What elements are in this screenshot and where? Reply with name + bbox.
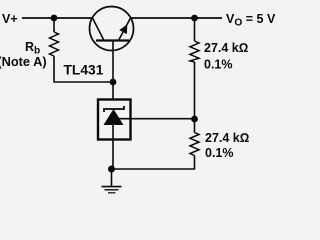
svg-text:V+: V+ [2,12,18,26]
wire: R1 bottom to divider node [194,62,196,119]
wire: TL431 reference pin to divider node [119,118,195,120]
transistor Q1 base bar [96,39,129,41]
wire: V+ rail to transistor collector [22,17,93,19]
junction dot: divider midpoint node [191,116,198,123]
wire: base lead down from bar to TL431 box [112,41,114,100]
svg-text:27.4 kΩ: 27.4 kΩ [204,41,248,55]
wire: anode lead to ground node [112,125,114,169]
junction dot: V+ / Rb node [51,15,58,22]
svg-text:TL431: TL431 [64,63,104,78]
TL431 cathode bar [104,106,124,112]
resistor Rb [50,32,59,56]
svg-text:(Note A): (Note A) [0,54,47,69]
ground [111,169,113,186]
transistor Q1 collector diagonal (left) [93,18,105,41]
transistor Q1 emitter arrow [119,24,127,34]
transistor Q1 emitter diagonal (right) [119,18,131,41]
transistor Q1 circle [90,7,134,51]
wire: emitter to output rail [131,17,223,19]
svg-text:0.1%: 0.1% [205,146,234,160]
wire: R2 bottom to ground node [112,156,195,170]
resistor R2 27.4k lower [194,119,196,133]
TL431 anode triangle [104,109,124,125]
junction dot: ground node [108,166,115,173]
wire: output node down to R1 [194,18,196,41]
wire: junction down to Rb top [53,18,55,32]
wire: Rb bottom down then right to base node [54,56,113,82]
svg-text:0.1%: 0.1% [204,58,233,72]
TL431 U1 box [98,100,131,140]
junction dot: base / Rb / TL431 cathode node [110,79,117,86]
junction dot: output node [191,15,198,22]
svg-text:27.4 kΩ: 27.4 kΩ [205,131,249,145]
resistor R1 27.4k upper [190,41,199,62]
